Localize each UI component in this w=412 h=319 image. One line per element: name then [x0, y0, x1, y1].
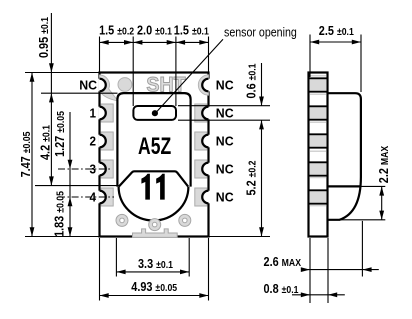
right notch NC row1 [202, 79, 210, 92]
extension line package bottom (right) [210, 236, 271, 238]
extension line package bottom (left) [25, 236, 99, 238]
left notch pin4 [98, 191, 106, 204]
right notch row2 [202, 107, 210, 120]
pin pad 4 left (gray) [101, 188, 113, 206]
svg-text:1: 1 [89, 106, 96, 121]
extension line strip left top [309, 35, 311, 78]
pin pad 2 left (gray) [101, 132, 113, 150]
faint lines on strip [310, 76, 327, 206]
svg-text:0.8 ±0.1: 0.8 ±0.1 [264, 282, 299, 296]
svg-text:sensor opening: sensor opening [224, 24, 297, 39]
left notch pin1 [98, 107, 106, 120]
svg-text:7.47 ±0.05: 7.47 ±0.05 [19, 132, 33, 178]
svg-text:3.3 ±0.1: 3.3 ±0.1 [138, 257, 173, 271]
pin pad 4 right (gray) [195, 188, 207, 206]
dimension line 4.93 [100, 293, 209, 298]
svg-text:NC: NC [216, 190, 234, 204]
dimension line 1.27 / 1.83 (vertical) [68, 112, 73, 237]
extension line dome right bottom [188, 238, 190, 277]
extension line pkg right top [208, 37, 210, 72]
extension line opening bottom (right) [178, 119, 270, 121]
extension line opening top (right) [178, 105, 270, 107]
dimension line 2.5 top (side) [310, 40, 361, 45]
leader line sensor opening [156, 39, 223, 112]
dimension line 2.2 MAX (vertical side) [379, 186, 384, 219]
svg-text:1.5 ±0.2: 1.5 ±0.2 [99, 24, 134, 38]
pin pad 1 right (gray) [195, 104, 207, 122]
centerline pin4 [58, 196, 114, 198]
svg-text:A5Z: A5Z [138, 134, 171, 160]
dimension line 7.47 (vertical) [30, 73, 35, 237]
svg-text:1.5 ±0.1: 1.5 ±0.1 [174, 24, 209, 38]
svg-text:NC: NC [79, 78, 97, 92]
svg-text:2.6 MAX: 2.6 MAX [264, 255, 302, 269]
svg-text:4: 4 [89, 190, 96, 205]
svg-text:4.2 ±0.1: 4.2 ±0.1 [39, 125, 53, 160]
svg-text:2: 2 [89, 134, 96, 149]
svg-text:NC: NC [216, 134, 234, 148]
svg-text:1.83 ±0.05: 1.83 ±0.05 [53, 191, 67, 237]
svg-text:NC: NC [216, 106, 234, 120]
right notch row5 [202, 191, 210, 204]
gray ring around right NC notch [198, 75, 208, 95]
extension line opening right [175, 37, 177, 107]
package body outline (front view) [100, 73, 209, 237]
dimension line 3.3 [116, 270, 189, 275]
svg-text:NC: NC [216, 78, 234, 92]
extension line pkg left bottom [99, 238, 101, 301]
extension line side dome bottom [339, 219, 385, 221]
right notch row4 [202, 163, 210, 176]
gray indicator circle top-left [118, 78, 132, 92]
bracket feature bottom center [133, 229, 178, 238]
svg-text:2.0 ±0.1: 2.0 ±0.1 [137, 24, 172, 38]
pin pad 1 left (gray) [101, 104, 113, 122]
side cap bottom edge [328, 185, 361, 187]
svg-text:NC: NC [216, 162, 234, 176]
sensor opening dot [152, 110, 158, 116]
extension line pkg right bottom [208, 238, 210, 301]
svg-text:0.95 ±0.1: 0.95 ±0.1 [37, 17, 51, 58]
svg-text:5.2 ±0.2: 5.2 ±0.2 [245, 161, 259, 196]
svg-text:3: 3 [89, 162, 96, 177]
dimension line 0.95 / 4.2 (vertical) [49, 13, 54, 186]
extension line strip left bottom [309, 238, 311, 303]
dimension line top (1.5/2.0/1.5) [100, 40, 209, 45]
left notch pin3 [98, 163, 106, 176]
svg-text:4.93 ±0.05: 4.93 ±0.05 [131, 280, 177, 294]
svg-text:2.2 MAX: 2.2 MAX [377, 145, 391, 183]
mounting donut right [179, 214, 191, 226]
centerline pin3 [58, 168, 111, 170]
dome (front) [119, 187, 189, 221]
side cap outline [328, 93, 361, 220]
gray ring around left NC notch [100, 75, 118, 101]
pin pad 3 left (gray) [101, 160, 113, 178]
left notch NC [98, 79, 106, 92]
side pads (castellation metallization) [310, 79, 327, 202]
extension line strip right bottom [327, 238, 329, 303]
right notch row3 [202, 135, 210, 148]
pin pad 3 right (gray) [195, 160, 207, 178]
svg-text:1.27 ±0.05: 1.27 ±0.05 [53, 111, 67, 157]
extension line opening left [132, 37, 134, 107]
left notch pin2 [98, 135, 106, 148]
side pad separator lines [309, 78, 328, 203]
extension line side cap bottom right [361, 185, 385, 187]
sensor opening rounded rect [133, 106, 176, 120]
dimension line 0.6 / 5.2 (vertical right) [259, 63, 264, 237]
dimension line 0.8 [292, 292, 345, 297]
side view substrate strip [309, 73, 328, 237]
mounting donut left [116, 214, 128, 226]
svg-text:0.6 ±0.1: 0.6 ±0.1 [245, 64, 259, 99]
extension line dome centerline (left) [35, 185, 117, 187]
extension line package top (left) [25, 72, 101, 74]
svg-text:2.5 ±0.1: 2.5 ±0.1 [319, 24, 354, 38]
extension line side body right bottom [361, 221, 363, 277]
extension line cap top (left) [41, 92, 118, 94]
extension line dome left bottom [115, 238, 117, 277]
trapezoid notch edge [119, 171, 188, 186]
sensor cap outline (front) [117, 93, 190, 187]
extension line pkg left top [99, 37, 101, 72]
dimension line 2.6 MAX [301, 267, 379, 272]
mounting donut center [149, 219, 161, 231]
pin pad 2 right (gray) [195, 132, 207, 150]
marking text 11 [141, 174, 164, 200]
extension line side body right top [360, 35, 362, 93]
